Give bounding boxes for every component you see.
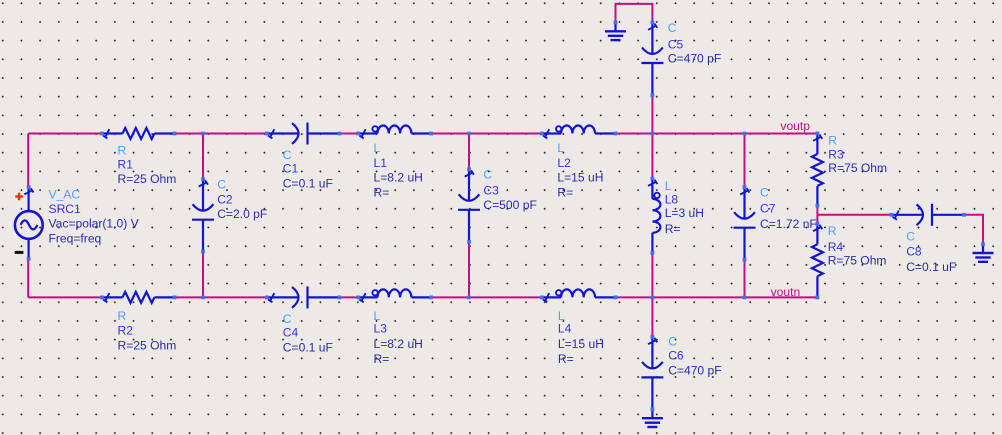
pin node at (541.9,133.5) <box>540 132 544 136</box>
svg-text:C8: C8 <box>906 245 922 259</box>
pin node at (174.5,133.5) <box>173 132 177 136</box>
wire junction at (469,297.4) <box>467 296 471 300</box>
wire left column bottom <box>27 259 29 298</box>
pin node at (203,179.2) <box>201 177 205 181</box>
pin node at (652.4,22.5) <box>651 21 655 25</box>
pin node at (469,241.9) <box>467 240 471 244</box>
pin node at (174.5,297.4) <box>173 296 177 300</box>
svg-text:L: L <box>374 141 381 155</box>
svg-text:C=470 pF: C=470 pF <box>668 364 721 378</box>
pin node at (541.9,297.4) <box>540 296 544 300</box>
pin node at (102,297.4) <box>100 296 104 300</box>
wire left column top <box>27 134 29 188</box>
svg-text:L=8.2 uH: L=8.2 uH <box>374 171 423 185</box>
pin node at (652.4,409.4) <box>651 408 655 412</box>
svg-text:L: L <box>665 179 672 193</box>
wire C7 branch bottom <box>744 260 746 298</box>
resistor R4 <box>816 224 818 245</box>
wire top rail segment 4 <box>431 133 542 135</box>
pin node at (339.5,297.4) <box>338 296 342 300</box>
svg-text:R: R <box>828 224 837 238</box>
pin node at (28.6,258.9) <box>27 257 31 261</box>
inductor L4 <box>542 296 561 298</box>
wire top ground jog <box>616 4 653 23</box>
wire junction at (203,297.4) <box>201 296 205 300</box>
pin node at (817.4,223.8) <box>816 222 820 226</box>
pin node at (652.4,178.6) <box>651 177 655 181</box>
wire C8 to ground corner <box>964 215 983 244</box>
pin node at (817.4,133.5) <box>816 132 820 136</box>
voltage source SRC1 <box>15 211 43 239</box>
pin node at (431,297.4) <box>429 296 433 300</box>
wire bottom rail segment 1 <box>28 296 102 298</box>
pin node at (358.3,133.5) <box>356 132 360 136</box>
svg-text:R1: R1 <box>118 157 134 171</box>
capacitor C1 <box>267 132 299 134</box>
svg-text:R=75 Ohm: R=75 Ohm <box>828 254 887 268</box>
wire junction at (744.5,133.5) <box>743 132 747 136</box>
svg-text:L3: L3 <box>374 322 388 336</box>
pin node at (615.5,22.5) <box>614 21 618 25</box>
svg-text:R=75 Ohm: R=75 Ohm <box>828 161 887 175</box>
svg-text:L: L <box>374 309 381 323</box>
pin node at (28.6,187.1) <box>27 185 31 189</box>
svg-text:C4: C4 <box>283 325 299 339</box>
wire C7 branch top <box>744 134 746 188</box>
ground bottom <box>651 409 653 417</box>
svg-text:C2: C2 <box>217 193 233 207</box>
pin node at (267,133.5) <box>265 132 269 136</box>
inductor L8 <box>651 179 653 199</box>
wire bottom rail segment 2 <box>175 296 268 298</box>
pin node at (203,251.7) <box>201 250 205 254</box>
svg-text:Vac=polar(1,0) V: Vac=polar(1,0) V <box>49 217 140 231</box>
wire C5 to top rail <box>651 95 653 134</box>
inductor L3 <box>358 296 377 298</box>
capacitor C7 <box>743 187 745 219</box>
wire C6 branch <box>651 297 653 337</box>
wire L8 branch bottom <box>651 253 653 298</box>
wire bottom rail segment 4 <box>431 296 542 298</box>
pin node at (744.5,259.7) <box>743 258 747 262</box>
svg-text:C: C <box>483 168 492 182</box>
svg-text:C=0.1 uF: C=0.1 uF <box>283 177 333 191</box>
svg-text:L4: L4 <box>558 322 572 336</box>
capacitor C3 <box>468 169 470 201</box>
pin node at (339.5,133.5) <box>338 132 342 136</box>
wire top rail segment 1 <box>28 133 102 135</box>
wire junction at (744.5,297.4) <box>743 296 747 300</box>
resistor R3 <box>816 134 818 155</box>
svg-text:R=25 Ohm: R=25 Ohm <box>118 338 177 352</box>
svg-text:C=500 pF: C=500 pF <box>483 198 536 212</box>
svg-text:C=0.1 uF: C=0.1 uF <box>283 341 333 355</box>
svg-text:R=: R= <box>557 185 573 199</box>
pin node at (652.4,336.9) <box>651 335 655 339</box>
resistor R2 <box>102 296 123 298</box>
pin node at (817.4,205.7) <box>816 204 820 208</box>
svg-text:C1: C1 <box>283 161 299 175</box>
svg-text:voutp: voutp <box>780 119 810 133</box>
resistor R1 <box>102 132 123 134</box>
pin node at (469,169.3) <box>467 167 471 171</box>
svg-text:L=3 uH: L=3 uH <box>665 206 704 220</box>
pin node at (744.5,187.2) <box>743 185 747 189</box>
wire C3 branch bottom <box>468 242 470 298</box>
svg-text:R=25 Ohm: R=25 Ohm <box>118 172 177 186</box>
ground right <box>982 244 984 252</box>
svg-text:C3: C3 <box>483 184 499 198</box>
wire to C8 <box>817 214 891 216</box>
wire bottom rail segment 3 <box>340 296 359 298</box>
svg-text:C: C <box>668 335 677 349</box>
ground top <box>614 23 616 31</box>
wire C3 branch top <box>468 134 470 170</box>
capacitor C2 <box>202 179 204 211</box>
svg-text:R: R <box>118 309 127 323</box>
svg-text:R=: R= <box>665 222 681 236</box>
pin node at (817.4,297.4) <box>816 296 820 300</box>
svg-text:R3: R3 <box>828 147 844 161</box>
pin node at (615.5,297.4) <box>614 296 618 300</box>
svg-text:R: R <box>828 133 837 147</box>
wire top rail segment 3 <box>340 133 359 135</box>
svg-text:L=15 uH: L=15 uH <box>557 171 603 185</box>
capacitor C8 <box>892 214 924 216</box>
svg-text:C: C <box>217 178 226 192</box>
wire top rail segment 5 <box>616 133 818 135</box>
minus sign <box>15 251 24 254</box>
svg-text:C=0.1 uF: C=0.1 uF <box>906 260 956 274</box>
pin node at (891.5,214.8) <box>890 213 894 217</box>
capacitor C6 <box>651 337 653 369</box>
plus sign <box>15 193 23 201</box>
svg-text:C=2.0 pF: C=2.0 pF <box>217 207 267 221</box>
svg-text:V_AC: V_AC <box>49 187 81 201</box>
inductor L2 <box>542 132 561 134</box>
svg-text:R=: R= <box>558 352 574 366</box>
pin node at (652.4,95) <box>651 93 655 97</box>
pin node at (983,244.2) <box>981 242 985 246</box>
wire junction at (203,133.5) <box>201 132 205 136</box>
svg-text:R=: R= <box>374 352 390 366</box>
wire junction at (469,133.5) <box>467 132 471 136</box>
pin node at (102,133.5) <box>100 132 104 136</box>
svg-text:R4: R4 <box>828 240 844 254</box>
pin node at (358.3,297.4) <box>356 296 360 300</box>
wire junction at (652.4,297.4) <box>651 296 655 300</box>
svg-text:L1: L1 <box>374 156 388 170</box>
svg-text:SRC1: SRC1 <box>49 202 82 216</box>
capacitor C4 <box>267 296 299 298</box>
svg-text:C: C <box>283 312 292 326</box>
pin node at (652.4,252.8) <box>651 251 655 255</box>
svg-text:voutn: voutn <box>771 285 801 299</box>
svg-text:L2: L2 <box>557 156 571 170</box>
wire C2 branch top <box>202 134 204 180</box>
pin node at (431,133.5) <box>429 132 433 136</box>
svg-text:C7: C7 <box>760 201 776 215</box>
svg-text:R: R <box>118 143 127 157</box>
pin node at (615.5,133.5) <box>614 132 618 136</box>
svg-text:R=: R= <box>374 185 390 199</box>
svg-text:C: C <box>668 21 677 35</box>
svg-text:C6: C6 <box>668 349 684 363</box>
pin node at (964,214.8) <box>962 213 966 217</box>
wire L8 branch top <box>651 134 653 179</box>
wire top rail segment 2 <box>175 133 268 135</box>
wire C2 branch bottom <box>202 252 204 298</box>
svg-text:C: C <box>906 229 915 243</box>
svg-text:L: L <box>558 309 565 323</box>
svg-text:L8: L8 <box>665 193 679 207</box>
inductor L1 <box>358 132 377 134</box>
pin node at (267,297.4) <box>265 296 269 300</box>
svg-text:L=15 uH: L=15 uH <box>558 337 604 351</box>
svg-text:C: C <box>283 148 292 162</box>
svg-text:C=470 pF: C=470 pF <box>668 52 721 66</box>
svg-text:C5: C5 <box>668 37 684 51</box>
wire junction at (652.4,133.5) <box>651 132 655 136</box>
svg-text:L=8.2 uH: L=8.2 uH <box>374 337 423 351</box>
svg-text:R2: R2 <box>118 323 134 337</box>
svg-text:Freq=freq: Freq=freq <box>49 232 102 246</box>
svg-text:C: C <box>760 186 769 200</box>
capacitor C5 <box>651 23 653 55</box>
svg-text:L: L <box>557 141 564 155</box>
wire bottom rail segment 5 <box>616 296 818 298</box>
wire R3-R4 middle <box>816 206 818 224</box>
svg-text:C=1.72 nF: C=1.72 nF <box>760 217 817 231</box>
